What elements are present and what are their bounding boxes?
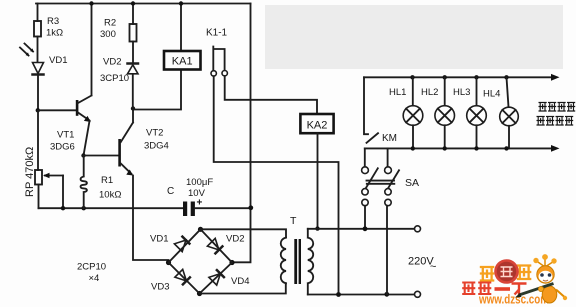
svg-text:1kΩ: 1kΩ bbox=[46, 28, 63, 39]
lamp HL1 bbox=[403, 75, 423, 150]
diode VD3 (bridge) bbox=[175, 269, 190, 284]
wire 220V upper line bbox=[308, 226, 421, 232]
wire bridge top corner to transformer secondary bbox=[201, 229, 287, 237]
light arrows into VD1 bbox=[20, 44, 34, 57]
label K1-1 bbox=[206, 28, 228, 39]
svg-text:3DG4: 3DG4 bbox=[144, 141, 169, 152]
label RP 470kΩ bbox=[24, 147, 36, 197]
wire K1-1 left lead down and across to 220V bus bbox=[214, 76, 339, 294]
label R1 10kΩ bbox=[99, 175, 121, 201]
svg-text:T: T bbox=[290, 215, 297, 227]
svg-text:VD2: VD2 bbox=[103, 57, 121, 68]
label HL4 bbox=[483, 89, 500, 100]
wire emitter node to VT2 base bbox=[84, 155, 119, 157]
svg-text:KM: KM bbox=[382, 133, 397, 144]
svg-text:HL4: HL4 bbox=[483, 89, 500, 100]
svg-text:VD4: VD4 bbox=[231, 276, 249, 287]
svg-text:VD3: VD3 bbox=[151, 282, 169, 293]
label 2CP10 x4 bbox=[77, 262, 106, 285]
lamp HL3 bbox=[467, 75, 487, 150]
svg-text:×4: ×4 bbox=[89, 273, 100, 284]
transistor VT1 bbox=[76, 4, 92, 156]
svg-text:10kΩ: 10kΩ bbox=[99, 190, 121, 201]
node RP wiper on rail bbox=[61, 206, 65, 210]
svg-text:3CP10: 3CP10 bbox=[100, 73, 129, 84]
svg-text:VD2: VD2 bbox=[226, 234, 244, 245]
relay coil KA1 bbox=[164, 4, 201, 70]
node KA1 on + rail bbox=[179, 1, 183, 5]
svg-text:RP 470kΩ: RP 470kΩ bbox=[24, 147, 36, 197]
svg-text:VD1: VD1 bbox=[150, 234, 168, 245]
wire top + rail bbox=[36, 3, 251, 5]
transistor VT2 bbox=[118, 108, 168, 260]
svg-text:VT1: VT1 bbox=[57, 130, 74, 141]
wire base of VT1 bbox=[38, 109, 76, 111]
relay coil KA2 bbox=[300, 114, 333, 228]
wire negative rail bbox=[39, 207, 184, 209]
node VT1 base junction bbox=[36, 108, 40, 112]
svg-text:HL3: HL3 bbox=[453, 87, 470, 98]
diode VD2 3CP10 bbox=[128, 64, 139, 109]
wire DC+ vertical from top rail down to bridge right corner bbox=[233, 4, 251, 263]
label HL2 bbox=[421, 87, 438, 98]
diode VD4 (bridge) bbox=[209, 270, 224, 285]
wire SA left pole to 220V line bbox=[363, 206, 368, 231]
capacitor C 100uF bbox=[183, 202, 251, 217]
switch SA bbox=[362, 148, 399, 205]
photodiode VD1 (receiver) bbox=[33, 63, 44, 111]
node DC+ on rail bbox=[248, 205, 253, 210]
svg-text:3DG6: 3DG6 bbox=[50, 142, 75, 153]
lamp HL4 bbox=[500, 75, 519, 150]
wire bridge edges bbox=[169, 229, 233, 293]
wire down to RP bbox=[37, 110, 39, 170]
contact KM bbox=[364, 77, 378, 143]
label VD2 3CP10 bbox=[100, 57, 129, 85]
diode VD1 (bridge) bbox=[174, 237, 189, 252]
wire bridge bottom corner to secondary bottom bbox=[200, 283, 286, 293]
transformer T bbox=[281, 215, 313, 295]
svg-text:+: + bbox=[197, 198, 203, 209]
svg-text:SA: SA bbox=[405, 177, 419, 189]
label R2 300 bbox=[100, 18, 116, 41]
svg-text:C: C bbox=[167, 186, 174, 197]
label HL3 bbox=[453, 87, 470, 98]
label 220V~ bbox=[408, 256, 436, 274]
svg-text:~: ~ bbox=[430, 261, 436, 273]
wire 220V lower bus bbox=[308, 291, 421, 297]
potentiometer RP bbox=[35, 170, 63, 208]
label C 100uF 10V + bbox=[167, 177, 213, 209]
label VT1 3DG6 bbox=[50, 130, 75, 153]
svg-text:100μF: 100μF bbox=[186, 177, 213, 188]
svg-text:www.dzsc.com: www.dzsc.com bbox=[478, 292, 549, 307]
node K1-1 branch on lower bus bbox=[336, 292, 341, 297]
svg-text:K1-1: K1-1 bbox=[206, 28, 228, 39]
svg-text:KA1: KA1 bbox=[172, 56, 193, 68]
svg-text:R2: R2 bbox=[104, 18, 116, 29]
diode VD2 (bridge) bbox=[207, 238, 222, 253]
relay contact K1-1 bbox=[211, 47, 227, 77]
resistor R1 bbox=[81, 156, 87, 209]
node VT1 collector on + rail bbox=[89, 1, 93, 5]
svg-text:VD1: VD1 bbox=[49, 55, 67, 66]
label KM bbox=[382, 133, 397, 144]
svg-text:300: 300 bbox=[100, 29, 116, 40]
label HL1 bbox=[389, 87, 406, 98]
resistor R2 bbox=[130, 4, 137, 63]
wire K1-1 right lead to KA2 bbox=[225, 76, 317, 114]
label VT2 3DG4 bbox=[144, 128, 169, 152]
svg-text:2CP10: 2CP10 bbox=[77, 262, 106, 273]
watermark dzsc.com bbox=[462, 254, 567, 306]
node SA right pole on lower bus bbox=[384, 292, 389, 297]
wire collector node to KA1 bbox=[133, 70, 181, 110]
svg-text:KA2: KA2 bbox=[307, 120, 328, 132]
svg-text:HL1: HL1 bbox=[389, 87, 406, 98]
label SA bbox=[405, 177, 419, 189]
svg-text:VT2: VT2 bbox=[146, 128, 163, 139]
node R1 on rail bbox=[82, 206, 86, 210]
node VT1 emitter / VT2 base bbox=[81, 153, 85, 157]
label VD1 bbox=[49, 55, 67, 66]
node KA2 lead on 220V line bbox=[315, 226, 319, 230]
wire lamp top bus with arrow bbox=[364, 74, 560, 81]
svg-text:R3: R3 bbox=[47, 16, 59, 27]
lamp HL2 bbox=[435, 75, 455, 150]
labels VD1 VD2 VD3 VD4 bbox=[150, 234, 249, 293]
wire lamp bottom bus with arrow bbox=[365, 145, 560, 152]
bridge rectifier nodes bbox=[166, 227, 235, 296]
resistor R3 bbox=[34, 4, 41, 63]
svg-text:HL2: HL2 bbox=[421, 87, 438, 98]
label controlled lighting circuit (Chinese) bbox=[537, 103, 576, 126]
label R3 1kΩ bbox=[46, 16, 63, 39]
scan artifact gray block bbox=[265, 5, 563, 69]
svg-text:R1: R1 bbox=[101, 175, 113, 186]
node R2 on + rail bbox=[131, 1, 135, 5]
node VT2 collector bbox=[131, 106, 135, 110]
wire SA right pole to 220V bus bbox=[386, 206, 388, 294]
